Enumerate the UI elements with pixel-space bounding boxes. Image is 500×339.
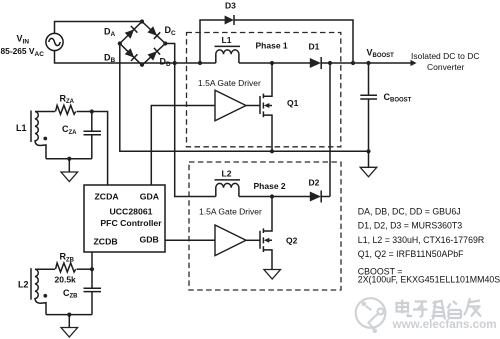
svg-text:Converter: Converter: [427, 62, 464, 72]
wire phase 2 rail: [239, 196, 310, 198]
svg-text:GDA: GDA: [140, 191, 160, 201]
node bridge top: [140, 19, 144, 23]
diode D3: [225, 15, 234, 25]
svg-text:D3: D3: [225, 1, 236, 11]
wire bridge right corner to rail: [165, 44, 174, 64]
capacitor CZA: [84, 112, 102, 159]
node ZCB junction: [90, 267, 94, 271]
svg-text:ZCDB: ZCDB: [94, 236, 118, 246]
op-amp gate driver 2: [215, 225, 246, 256]
node Q1 drain tap: [270, 61, 274, 65]
wire RZB to junction: [77, 268, 92, 270]
resistor RZB: [56, 263, 76, 272]
svg-text:www.elecfans.com: www.elecfans.com: [392, 318, 497, 331]
inductor L2: [216, 183, 239, 196]
diode D2: [310, 191, 321, 203]
node rail x175: [173, 61, 177, 65]
svg-text:Q1, Q2 = IRFB11N50APbF: Q1, Q2 = IRFB11N50APbF: [358, 249, 464, 259]
resistor RZA: [56, 105, 76, 114]
diode DA: [125, 26, 138, 39]
arrow to converter: [411, 60, 417, 66]
wire RZA to ZCDA pin: [77, 112, 108, 186]
wire driver 1 output to gate: [246, 105, 260, 107]
svg-text:L2: L2: [222, 169, 232, 179]
svg-text:1.5A Gate Driver: 1.5A Gate Driver: [199, 206, 262, 216]
svg-text:1.5A Gate Driver: 1.5A Gate Driver: [198, 78, 261, 88]
node bridge bottom: [140, 63, 144, 67]
diode D1: [310, 57, 321, 69]
svg-text:Phase 2: Phase 2: [254, 181, 286, 191]
wire ZCB bottom: [46, 314, 92, 316]
op-amp gate driver 1: [215, 90, 246, 121]
svg-text:20.5k: 20.5k: [55, 275, 77, 285]
svg-text:L2: L2: [18, 279, 29, 289]
ground ZCB: [61, 315, 78, 337]
AC source VIN: [46, 33, 63, 50]
label L2 underline: [215, 179, 241, 181]
wire GDB to driver 2 input: [165, 239, 215, 241]
svg-text:Isolated DC to DC: Isolated DC to DC: [411, 51, 480, 61]
node ZCB ground: [67, 313, 71, 317]
svg-text:2X(100uF, EKXG451ELL101MM40S): 2X(100uF, EKXG451ELL101MM40S): [358, 275, 500, 285]
transistor Q1: [260, 63, 272, 151]
node ZCA junction: [90, 109, 94, 113]
wire GDA to driver 1 input: [151, 106, 215, 186]
svg-text:L1: L1: [16, 123, 27, 133]
wire coil top to RZA: [35, 111, 55, 113]
svg-text:D1, D2, D3 = MURS360T3: D1, D2, D3 = MURS360T3: [358, 221, 462, 231]
coil polarity dot B: [43, 294, 47, 298]
diode DB: [125, 48, 138, 61]
svg-text:UCC28061: UCC28061: [110, 207, 153, 217]
capacitor CBOOST: [360, 63, 377, 151]
node CBOOST tap: [366, 61, 370, 65]
svg-text:L1: L1: [222, 35, 232, 45]
wire rail L1 to D1: [239, 62, 310, 64]
coil L1 sense winding: [31, 111, 46, 159]
wire coil top to RZB: [35, 268, 55, 270]
svg-text:PFC Controller: PFC Controller: [100, 218, 162, 228]
watermark icon: [356, 298, 386, 329]
wire AC bottom to rectified rail: [55, 51, 216, 63]
wire D2 output up to rail: [329, 63, 331, 197]
bridge rectifier diamond: [120, 22, 166, 66]
svg-text:L1, L2 = 330uH, CTX16-17769R: L1, L2 = 330uH, CTX16-17769R: [358, 235, 484, 245]
watermark chinese glyphs: [397, 298, 482, 320]
inductor L1: [216, 50, 239, 63]
ground below CBOOST: [360, 151, 377, 177]
transistor Q2: [260, 197, 272, 270]
wire rail D1 to VBOOST arrow: [321, 62, 411, 64]
capacitor CZB: [84, 269, 102, 314]
svg-text:Q2: Q2: [286, 235, 298, 245]
node Q1 source on ground line: [270, 149, 274, 153]
wire D2 to riser: [321, 196, 330, 198]
svg-text:ZCDA: ZCDA: [95, 191, 120, 201]
wire ZCDB pin down: [91, 252, 93, 269]
diode DD: [148, 48, 161, 61]
ground below Q2: [264, 270, 281, 280]
dashed box Phase 2: [189, 162, 341, 290]
node CBOOST ground: [366, 149, 370, 153]
svg-text:D2: D2: [309, 178, 320, 188]
svg-text:DA, DB, DC, DD = GBU6J: DA, DB, DC, DD = GBU6J: [358, 207, 461, 217]
UCC28061 controller block U1: [84, 185, 165, 252]
wire D3 branch up and across: [200, 20, 353, 63]
node Q2 drain tap: [270, 194, 274, 198]
wire rail feed down to phase 2: [175, 63, 216, 197]
svg-text:Q1: Q1: [287, 98, 299, 108]
dashed box Phase 1: [187, 33, 341, 147]
ground ZCA: [61, 159, 78, 182]
svg-text:Phase 1: Phase 1: [256, 40, 288, 50]
node D3 return: [351, 61, 355, 65]
node rail D3 tap: [198, 61, 202, 65]
svg-text:D1: D1: [309, 42, 320, 52]
ground line from bridge left corner: [120, 44, 369, 152]
wire ZCA bottom: [46, 158, 92, 160]
coil L2 sense winding: [31, 268, 46, 314]
svg-text:GDB: GDB: [140, 235, 159, 245]
node ZCA ground: [67, 157, 71, 161]
coil polarity dot A: [43, 137, 47, 141]
label L1 underline: [215, 45, 241, 47]
wire AC top to bridge top corner: [55, 22, 143, 34]
node D2 join: [328, 61, 332, 65]
node bridge right: [163, 41, 167, 45]
wire driver 2 output to gate: [246, 239, 260, 241]
node bridge left: [118, 41, 122, 45]
diode DC: [147, 26, 160, 39]
